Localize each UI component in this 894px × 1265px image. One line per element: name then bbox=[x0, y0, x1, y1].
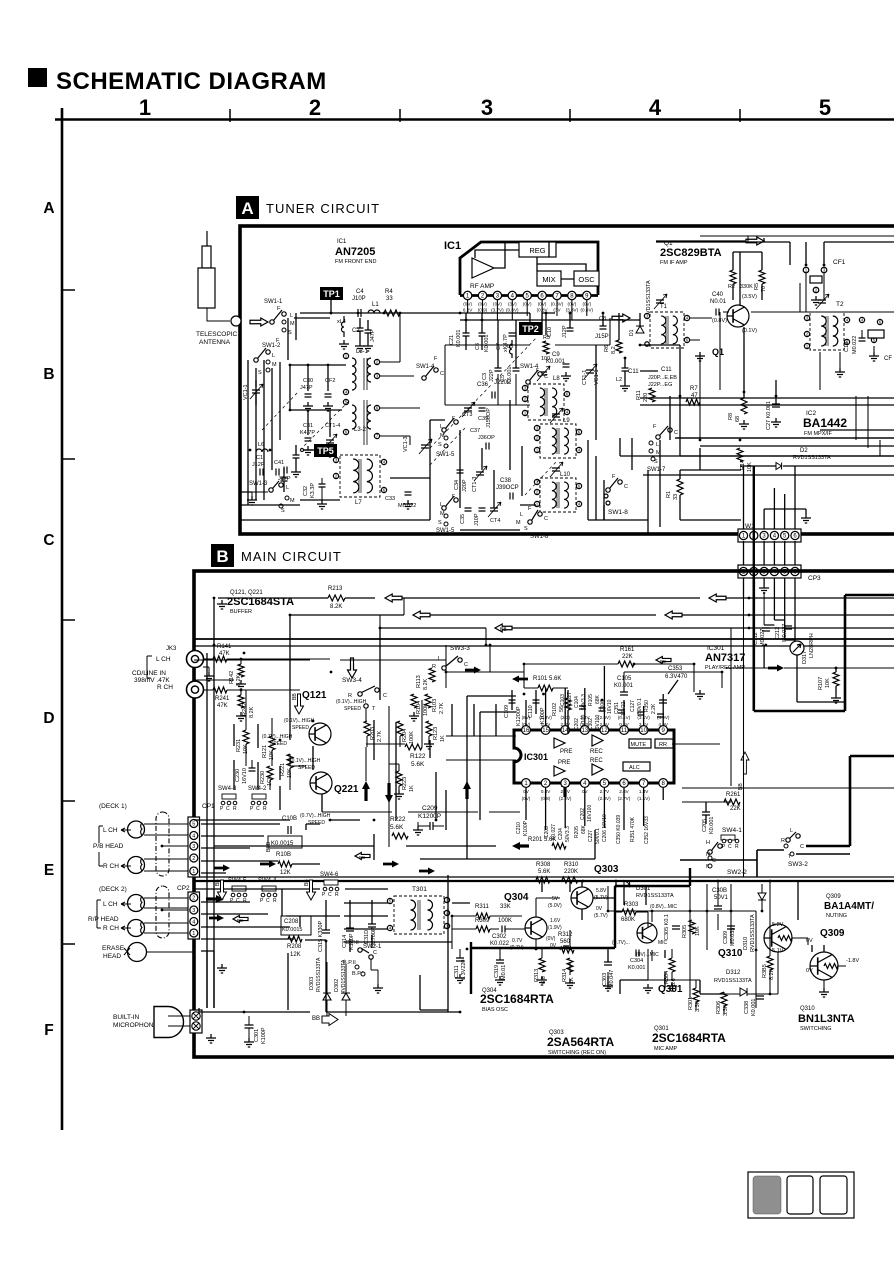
coil L9 pins bbox=[534, 425, 539, 430]
wire tuner h mid bbox=[430, 420, 445, 520]
svg-text:R223: R223 bbox=[402, 777, 408, 790]
arrow solid right mid bbox=[768, 665, 784, 672]
svg-text:BN1L3NTA: BN1L3NTA bbox=[798, 1013, 855, 1025]
svg-text:1: 1 bbox=[192, 869, 195, 875]
ruler side tick 3 bbox=[62, 619, 75, 621]
svg-text:5.6K: 5.6K bbox=[390, 824, 404, 831]
svg-text:1: 1 bbox=[192, 931, 195, 937]
svg-text:4.9V: 4.9V bbox=[658, 722, 668, 727]
wire tuner inner h1 bbox=[445, 344, 610, 346]
svg-text:C: C bbox=[800, 844, 804, 850]
wire tuner right vert bbox=[700, 283, 800, 440]
wires cp area bbox=[194, 824, 388, 1012]
ruler side tick 2 bbox=[62, 458, 75, 460]
svg-text:0V: 0V bbox=[550, 943, 557, 949]
svg-text:(0.8V): (0.8V) bbox=[581, 308, 594, 313]
diode D310 bbox=[758, 893, 766, 900]
svg-text:C227: C227 bbox=[588, 830, 594, 842]
svg-text:C305 K0.1: C305 K0.1 bbox=[664, 914, 670, 940]
wire tuner v left bbox=[248, 313, 296, 505]
svg-text:R230: R230 bbox=[260, 771, 266, 784]
svg-text:R350: R350 bbox=[644, 700, 650, 712]
wire main bottom left bbox=[199, 951, 214, 1012]
svg-text:SW4-5: SW4-5 bbox=[228, 878, 247, 884]
wires tuner bottom right bbox=[675, 438, 894, 520]
wire L3 right pins bbox=[380, 313, 420, 445]
svg-text:10K: 10K bbox=[825, 678, 831, 688]
svg-text:R102: R102 bbox=[552, 703, 558, 716]
svg-text:R: R bbox=[781, 838, 785, 844]
svg-text:REG: REG bbox=[529, 246, 545, 255]
svg-text:R: R bbox=[735, 844, 739, 850]
svg-text:(0V): (0V) bbox=[463, 302, 472, 307]
svg-text:8.2K: 8.2K bbox=[330, 604, 342, 610]
svg-text:0.7V: 0.7V bbox=[512, 938, 523, 944]
main circuit border box bbox=[194, 571, 894, 1057]
transistor Q309 bbox=[810, 952, 838, 980]
svg-text:47K: 47K bbox=[217, 703, 228, 709]
wire tuner bus a bbox=[460, 313, 555, 335]
svg-text:Q221: Q221 bbox=[334, 784, 359, 795]
variable cap tuner mid bbox=[421, 445, 429, 448]
svg-text:MAIN CIRCUIT: MAIN CIRCUIT bbox=[241, 549, 342, 564]
connector W1 pins bbox=[738, 529, 801, 542]
svg-text:IC301: IC301 bbox=[524, 752, 548, 762]
wire main low v bbox=[374, 790, 446, 860]
svg-text:1K: 1K bbox=[409, 785, 415, 792]
svg-text:BB: BB bbox=[312, 1016, 320, 1022]
svg-text:0V: 0V bbox=[596, 906, 603, 912]
antenna terminal node bbox=[231, 316, 241, 326]
svg-text:C: C bbox=[544, 516, 548, 522]
wires to IC2 bbox=[640, 398, 894, 446]
svg-text:C: C bbox=[624, 484, 628, 490]
svg-text:22K: 22K bbox=[622, 654, 633, 660]
svg-text:16V100: 16V100 bbox=[587, 805, 593, 822]
svg-text:2: 2 bbox=[192, 856, 195, 862]
svg-text:C4: C4 bbox=[356, 289, 364, 295]
telescopic antenna bbox=[206, 231, 208, 246]
svg-text:H: H bbox=[706, 840, 710, 846]
svg-text:680K: 680K bbox=[621, 917, 635, 923]
wire tuner drop 3 bbox=[699, 448, 701, 470]
svg-text:AN7205: AN7205 bbox=[335, 246, 375, 258]
svg-text:R8: R8 bbox=[728, 413, 734, 420]
svg-text:560: 560 bbox=[560, 939, 571, 945]
wire q303 v drops bbox=[542, 881, 646, 905]
svg-text:(0.3V): (0.3V) bbox=[551, 302, 564, 307]
wires above IC301 bbox=[524, 664, 722, 692]
head R CH deck2 bbox=[128, 920, 145, 937]
svg-text:C40: C40 bbox=[712, 292, 724, 298]
svg-text:ERASE: ERASE bbox=[102, 945, 125, 952]
ground W1 pin2 bbox=[763, 578, 765, 584]
svg-text:MICROPHONE: MICROPHONE bbox=[113, 1022, 158, 1029]
svg-text:L CH: L CH bbox=[156, 656, 171, 663]
arrow BB at IC301 bbox=[656, 657, 671, 664]
coil L8 bbox=[528, 384, 564, 420]
svg-text:Q303: Q303 bbox=[594, 864, 619, 875]
svg-text:A: A bbox=[241, 199, 253, 218]
svg-text:R5: R5 bbox=[754, 283, 760, 290]
svg-text:0.5V: 0.5V bbox=[619, 722, 629, 727]
svg-text:R231: R231 bbox=[236, 739, 242, 752]
svg-text:L CH: L CH bbox=[103, 827, 118, 834]
wire top right bus bbox=[656, 242, 894, 265]
wire mic out bbox=[199, 1011, 460, 1013]
arrow to T1 bbox=[612, 314, 630, 322]
svg-text:BB: BB bbox=[292, 693, 298, 700]
svg-text:L: L bbox=[656, 442, 659, 448]
svg-text:8.2K: 8.2K bbox=[423, 678, 429, 690]
svg-text:BB: BB bbox=[304, 879, 310, 886]
svg-text:C309: C309 bbox=[723, 931, 729, 944]
svg-text:(0V): (0V) bbox=[493, 302, 502, 307]
svg-text:R: R bbox=[263, 806, 267, 812]
test point TP5 bbox=[314, 444, 337, 457]
svg-text:R/P HEAD: R/P HEAD bbox=[88, 916, 119, 923]
svg-text:R303: R303 bbox=[624, 902, 639, 908]
wire long top4 bbox=[194, 638, 894, 640]
svg-text:CF1: CF1 bbox=[833, 259, 846, 266]
svg-text:K0.001: K0.001 bbox=[484, 335, 490, 352]
resistor R208 12K bbox=[288, 936, 302, 942]
svg-text:33K: 33K bbox=[500, 904, 511, 910]
svg-text:C208: C208 bbox=[284, 919, 299, 925]
svg-text:J39OCP: J39OCP bbox=[496, 485, 519, 491]
svg-text:A: A bbox=[43, 200, 54, 217]
svg-text:D2: D2 bbox=[800, 448, 808, 454]
svg-text:L: L bbox=[440, 424, 443, 430]
pins 4 5 6 right bbox=[859, 317, 864, 322]
svg-text:13: 13 bbox=[581, 728, 588, 734]
arrow BB up right bbox=[741, 752, 749, 774]
svg-text:16V22: 16V22 bbox=[621, 701, 627, 716]
coil L8 pins bbox=[522, 385, 527, 390]
cable deck2 bbox=[156, 886, 169, 938]
svg-text:C6: C6 bbox=[475, 343, 481, 350]
svg-text:(0.1V)...HIGH: (0.1V)...HIGH bbox=[336, 699, 367, 705]
svg-text:2.3V: 2.3V bbox=[560, 722, 570, 727]
svg-text:SPEED: SPEED bbox=[344, 706, 361, 712]
svg-text:6.3V470: 6.3V470 bbox=[665, 674, 688, 680]
wire W1 pin3 down bbox=[763, 592, 765, 625]
svg-text:4: 4 bbox=[192, 833, 195, 839]
wire tuner drop 4 bbox=[744, 466, 796, 529]
svg-text:C7: C7 bbox=[496, 343, 502, 350]
svg-text:5.2V: 5.2V bbox=[772, 922, 784, 928]
connector interconnect wires bbox=[744, 541, 796, 565]
svg-text:TP1: TP1 bbox=[323, 289, 340, 299]
wire tuner gang dash bbox=[300, 400, 556, 495]
section label A box bbox=[236, 196, 259, 219]
svg-text:M0.033: M0.033 bbox=[730, 928, 736, 946]
svg-text:R6: R6 bbox=[604, 345, 610, 352]
svg-text:330K: 330K bbox=[740, 284, 753, 290]
svg-text:OSC: OSC bbox=[578, 275, 595, 284]
transistor Q121 bbox=[309, 723, 331, 745]
ceramic filter CF1 bbox=[803, 267, 809, 273]
svg-text:L: L bbox=[790, 828, 793, 834]
svg-text:(0.8V)...MIC: (0.8V)...MIC bbox=[650, 904, 677, 910]
svg-text:R242: R242 bbox=[242, 703, 248, 716]
cable deck1 bbox=[156, 812, 169, 876]
svg-text:L8: L8 bbox=[553, 376, 560, 382]
svg-text:B: B bbox=[43, 366, 54, 383]
svg-text:REC: REC bbox=[590, 758, 603, 764]
svg-text:BB: BB bbox=[237, 918, 243, 923]
svg-text:FM MPX/IF: FM MPX/IF bbox=[804, 431, 832, 437]
arrow solid right cp1 bbox=[214, 865, 230, 872]
svg-text:IC1: IC1 bbox=[444, 240, 461, 252]
svg-text:6.2V: 6.2V bbox=[463, 308, 473, 313]
svg-text:C11: C11 bbox=[628, 369, 639, 375]
solid arrow right row3 bbox=[419, 868, 435, 875]
svg-text:ALC: ALC bbox=[629, 765, 640, 771]
wires main left vert bbox=[207, 598, 214, 1008]
svg-text:RVD1SS133TA: RVD1SS133TA bbox=[714, 978, 752, 984]
svg-text:SW1-5: SW1-5 bbox=[436, 452, 455, 458]
svg-text:2: 2 bbox=[192, 895, 195, 901]
svg-text:(3.7V): (3.7V) bbox=[491, 308, 504, 313]
transformer T1 pins bbox=[644, 313, 649, 318]
wire tuner drop 1 bbox=[659, 440, 661, 527]
svg-text:16V10: 16V10 bbox=[242, 768, 248, 784]
wire long top3 bbox=[380, 628, 486, 700]
arrow solid down 2 bbox=[385, 783, 393, 803]
svg-text:M: M bbox=[290, 321, 295, 327]
svg-text:SW1-3: SW1-3 bbox=[249, 481, 268, 487]
svg-text:D317: D317 bbox=[802, 651, 808, 664]
svg-text:BUILT-IN: BUILT-IN bbox=[113, 1014, 140, 1021]
svg-text:BB: BB bbox=[660, 659, 666, 664]
svg-text:Q310: Q310 bbox=[800, 1006, 815, 1012]
svg-text:K100P: K100P bbox=[523, 820, 529, 836]
ruler tick 3 bbox=[569, 109, 571, 122]
svg-text:N0.01: N0.01 bbox=[710, 299, 727, 305]
svg-text:R261: R261 bbox=[726, 792, 741, 798]
svg-text:C304: C304 bbox=[630, 958, 643, 964]
jack JK3 L CH bbox=[187, 651, 204, 668]
svg-text:(4.9V): (4.9V) bbox=[657, 715, 670, 720]
variable cap over L9 bbox=[552, 414, 560, 417]
svg-text:CP2: CP2 bbox=[177, 885, 190, 892]
svg-text:BIAS OSC: BIAS OSC bbox=[482, 1007, 508, 1013]
svg-text:C350 K0.039: C350 K0.039 bbox=[616, 815, 622, 844]
jack JK3 R CH bbox=[187, 681, 204, 698]
svg-text:(0.7V)...HIGH: (0.7V)...HIGH bbox=[300, 813, 331, 819]
svg-text:SPEED: SPEED bbox=[292, 725, 309, 731]
svg-text:C21: C21 bbox=[449, 335, 455, 345]
svg-text:FM FRONT END: FM FRONT END bbox=[335, 259, 376, 265]
svg-text:(2.3): (2.3) bbox=[580, 722, 590, 727]
svg-text:C: C bbox=[328, 892, 332, 898]
svg-text:R141: R141 bbox=[217, 644, 232, 650]
transistor Q304 bbox=[525, 917, 547, 939]
tuner circuit border box bbox=[240, 226, 894, 534]
wire q310 top bbox=[718, 880, 894, 882]
svg-text:R CH: R CH bbox=[157, 684, 173, 691]
svg-text:J10P: J10P bbox=[352, 296, 366, 302]
svg-text:(0.7V)...HIGH: (0.7V)...HIGH bbox=[262, 734, 293, 740]
svg-text:D312: D312 bbox=[726, 970, 741, 976]
svg-text:B: B bbox=[216, 547, 228, 566]
svg-text:BUFFER: BUFFER bbox=[230, 609, 252, 615]
svg-text:SW1-4: SW1-4 bbox=[520, 364, 539, 370]
svg-text:CT1-4: CT1-4 bbox=[325, 423, 340, 429]
ic OSC box bbox=[574, 271, 599, 286]
svg-text:C11: C11 bbox=[661, 367, 672, 373]
svg-text:(3.5V): (3.5V) bbox=[742, 294, 757, 300]
wire buffer emitters bbox=[313, 704, 496, 820]
svg-text:Q304: Q304 bbox=[504, 892, 529, 903]
svg-text:L7: L7 bbox=[355, 500, 362, 506]
ground xL4 bbox=[339, 340, 349, 349]
svg-text:HEAD: HEAD bbox=[103, 953, 121, 960]
capacitor C208 K0.0015 bbox=[281, 916, 311, 935]
svg-text:C10B: C10B bbox=[282, 816, 297, 822]
svg-text:R161: R161 bbox=[620, 647, 635, 653]
title bullet square bbox=[28, 68, 47, 87]
svg-text:R2: R2 bbox=[728, 284, 735, 290]
svg-text:3: 3 bbox=[481, 95, 493, 120]
wire W1 pin6 down bbox=[794, 578, 796, 648]
varcap CT1-1 bbox=[586, 370, 594, 373]
wire loop left of IC301 bbox=[420, 696, 595, 859]
coil L9 bbox=[540, 424, 576, 458]
svg-text:S: S bbox=[524, 526, 528, 532]
wire t301 feeds bbox=[344, 903, 470, 942]
svg-text:2SC829BTA: 2SC829BTA bbox=[660, 247, 722, 259]
head L CH deck2 bbox=[128, 895, 145, 912]
svg-text:CT1-3: CT1-3 bbox=[472, 477, 478, 492]
capacitor left cluster a bbox=[293, 455, 300, 458]
wire Q1 collector bbox=[733, 252, 762, 305]
svg-text:L9: L9 bbox=[563, 418, 570, 424]
ic REG box bbox=[519, 242, 556, 257]
wire Q1 base t1 bbox=[690, 312, 894, 398]
svg-text:50V3.3: 50V3.3 bbox=[565, 826, 571, 842]
svg-text:L6: L6 bbox=[258, 442, 264, 448]
svg-text:(0V): (0V) bbox=[546, 936, 556, 942]
svg-text:E: E bbox=[44, 862, 54, 879]
svg-text:2: 2 bbox=[309, 95, 321, 120]
svg-text:(0.8V: (0.8V bbox=[537, 308, 549, 313]
svg-text:C: C bbox=[43, 532, 54, 549]
svg-text:R CH: R CH bbox=[103, 863, 119, 870]
diode D301 bbox=[624, 881, 630, 888]
svg-text:C37: C37 bbox=[470, 428, 480, 434]
svg-text:L2: L2 bbox=[616, 377, 622, 383]
wires q310 bbox=[700, 881, 846, 1014]
svg-text:RR: RR bbox=[659, 742, 667, 748]
wire q301 node line bbox=[608, 884, 756, 1008]
svg-text:5.8V: 5.8V bbox=[596, 888, 607, 894]
svg-text:D303: D303 bbox=[309, 977, 315, 990]
svg-text:R7: R7 bbox=[690, 386, 698, 392]
svg-text:C: C bbox=[544, 374, 548, 380]
svg-text:1.6V: 1.6V bbox=[550, 918, 561, 924]
svg-text:T301: T301 bbox=[412, 886, 427, 893]
transistor Q221 bbox=[310, 772, 332, 794]
svg-text:R123: R123 bbox=[433, 727, 439, 740]
ground jack L bbox=[204, 672, 214, 681]
wire q303 bus bbox=[512, 881, 894, 920]
wire right col v bbox=[798, 881, 824, 952]
wire tuner inner h2 bbox=[609, 318, 611, 345]
svg-text:VC1-3: VC1-3 bbox=[403, 436, 409, 452]
svg-text:33: 33 bbox=[673, 494, 679, 500]
svg-text:BB: BB bbox=[215, 879, 221, 886]
wire main v left bbox=[234, 690, 290, 810]
svg-text:C338: C338 bbox=[744, 1001, 750, 1014]
arrow left top2 bbox=[413, 611, 430, 619]
page indicator square 2 bbox=[787, 1176, 813, 1214]
ic IC301 bottom pins bbox=[522, 779, 531, 788]
transformer T2 pins bbox=[804, 315, 809, 320]
svg-text:R1: R1 bbox=[666, 491, 672, 498]
svg-text:C104: C104 bbox=[574, 696, 580, 708]
arrow hollow down sw46 bbox=[307, 880, 316, 900]
svg-text:PRE: PRE bbox=[560, 749, 572, 755]
test point TP1 bbox=[320, 287, 343, 300]
svg-text:T2: T2 bbox=[836, 301, 844, 308]
svg-text:2SC1684RTA: 2SC1684RTA bbox=[480, 992, 554, 1006]
svg-text:Q309: Q309 bbox=[820, 928, 845, 939]
svg-text:R314: R314 bbox=[562, 969, 568, 982]
svg-text:(3.8V): (3.8V) bbox=[566, 308, 579, 313]
svg-text:68K: 68K bbox=[581, 824, 587, 834]
svg-text:15: 15 bbox=[542, 728, 549, 734]
svg-text:R221: R221 bbox=[280, 763, 286, 776]
ic IC301 top pins bbox=[522, 726, 531, 735]
svg-text:C351: C351 bbox=[614, 702, 620, 714]
svg-text:SW2-2: SW2-2 bbox=[727, 869, 747, 876]
thick bus right lower bbox=[806, 756, 894, 846]
svg-text:K0.001: K0.001 bbox=[751, 999, 757, 1016]
svg-text:50V0.1: 50V0.1 bbox=[595, 828, 601, 844]
arrow hollow down cp1 bbox=[218, 880, 227, 900]
svg-text:LN28RPH: LN28RPH bbox=[809, 633, 815, 658]
svg-text:C: C bbox=[236, 898, 240, 904]
svg-text:C33: C33 bbox=[385, 496, 395, 502]
svg-text:C106: C106 bbox=[600, 700, 606, 712]
svg-text:BA1442: BA1442 bbox=[803, 416, 847, 430]
transformer L3-1 bbox=[352, 358, 356, 390]
svg-text:R305: R305 bbox=[682, 925, 688, 938]
svg-text:10K: 10K bbox=[747, 462, 753, 472]
wire ic1 bottom bus bbox=[445, 374, 530, 405]
svg-text:J47P: J47P bbox=[300, 385, 313, 391]
wire LED down bbox=[797, 655, 845, 702]
svg-text:L3-1: L3-1 bbox=[356, 349, 369, 355]
svg-text:C212: C212 bbox=[775, 627, 781, 640]
transistor Q1 bbox=[727, 305, 749, 327]
svg-text:FM IF AMP: FM IF AMP bbox=[660, 260, 688, 266]
svg-text:MUTE: MUTE bbox=[631, 742, 647, 748]
wire sw3-2 area bbox=[680, 850, 850, 877]
arrow hollow down bb q121 bbox=[295, 694, 304, 714]
arrow top right bbox=[746, 237, 764, 245]
svg-text:1: 1 bbox=[139, 95, 151, 120]
arrow BB mid bbox=[495, 624, 512, 632]
svg-text:S: S bbox=[438, 520, 442, 526]
svg-text:R: R bbox=[243, 898, 247, 904]
test point TP2 bbox=[519, 322, 542, 335]
ruler side tick 4 bbox=[62, 800, 75, 802]
svg-text:5V: 5V bbox=[552, 896, 559, 902]
svg-text:(0V): (0V) bbox=[538, 302, 547, 307]
